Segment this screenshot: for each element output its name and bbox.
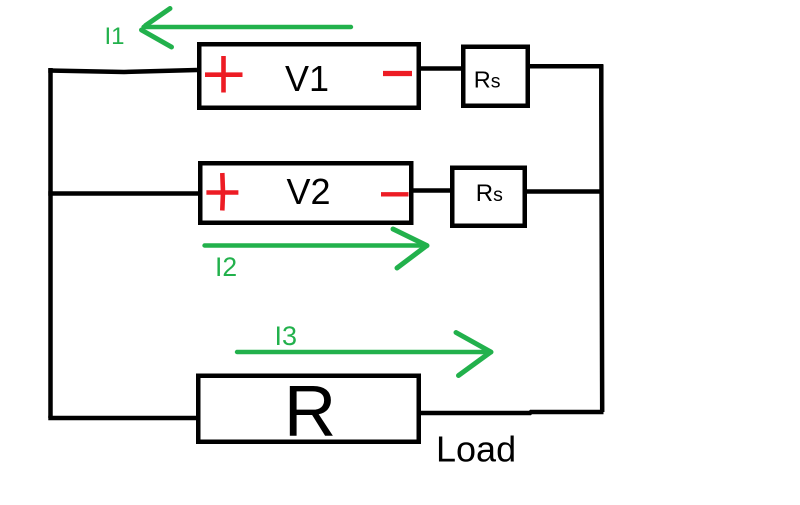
svg-text:R: R — [284, 371, 336, 452]
svg-text:Load: Load — [436, 429, 516, 470]
svg-text:V2: V2 — [286, 171, 330, 212]
svg-text:I1: I1 — [105, 23, 125, 50]
svg-text:V1: V1 — [285, 58, 329, 99]
svg-text:I2: I2 — [215, 252, 237, 282]
svg-text:Rs: Rs — [474, 67, 501, 93]
svg-text:Rs: Rs — [476, 180, 503, 207]
svg-text:I3: I3 — [275, 321, 298, 351]
